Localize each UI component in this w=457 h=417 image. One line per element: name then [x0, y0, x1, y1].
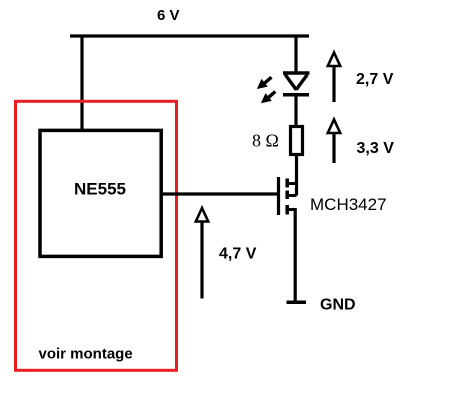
transistor Q1 body stub	[287, 194, 296, 197]
resistor R1 8 ohm body	[291, 127, 303, 155]
svg-text:2,7 V: 2,7 V	[356, 71, 394, 88]
wire resistor to MOSFET drain	[295, 153, 298, 196]
wire supply rail 6V horizontal	[70, 34, 309, 37]
IC NE555 (box)	[40, 130, 161, 256]
annotation arrow 3,3 V	[328, 119, 340, 163]
annotation arrow 2,7 V	[328, 53, 340, 103]
annotation arrow 4,7 V	[196, 208, 208, 299]
LED light emission arrow 1	[257, 77, 272, 89]
wire LED cathode to resistor	[294, 94, 297, 128]
svg-text:voir montage: voir montage	[39, 346, 133, 363]
svg-text:8 Ω: 8 Ω	[252, 131, 279, 151]
svg-text:4,7 V: 4,7 V	[219, 246, 257, 263]
LED D1 cathode bar	[283, 93, 309, 97]
LED D1 triangle	[283, 73, 310, 90]
wire MOSFET source to ground	[294, 208, 297, 302]
transistor Q1 source stub	[287, 208, 295, 211]
svg-text:3,3 V: 3,3 V	[357, 140, 395, 157]
transistor Q1 drain stub	[287, 182, 296, 185]
ground bar	[287, 301, 307, 305]
svg-text:NE555: NE555	[74, 180, 126, 199]
wire NE555 supply vertical	[80, 35, 83, 132]
svg-text:MCH3427: MCH3427	[310, 195, 387, 214]
wire LED branch from supply rail	[294, 36, 297, 74]
svg-text:6 V: 6 V	[157, 7, 180, 24]
box voir montage (red outline)	[16, 101, 177, 370]
LED light emission arrow 2	[261, 92, 275, 104]
transistor Q1 channel segment top	[285, 179, 289, 188]
svg-text:GND: GND	[320, 297, 356, 314]
transistor Q1 channel segment bottom	[285, 205, 289, 215]
transistor Q1 channel segment middle	[285, 191, 289, 200]
transistor Q1 MCH3427 gate bar	[277, 177, 280, 215]
wire NE555 output to gate	[161, 192, 278, 195]
